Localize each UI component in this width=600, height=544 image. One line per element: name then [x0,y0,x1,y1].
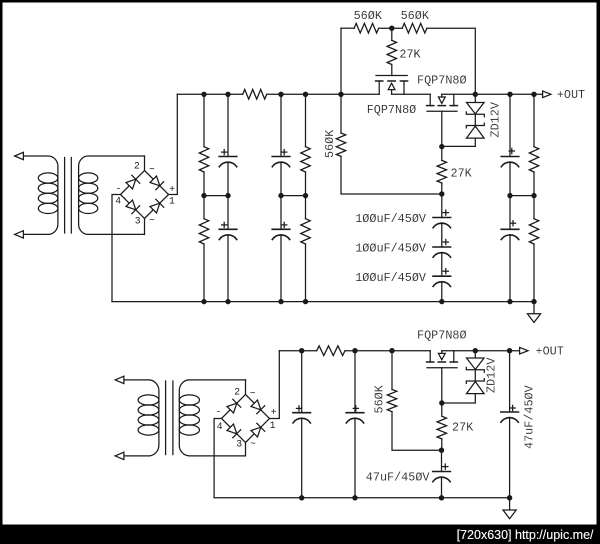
wire upper bridge plus to main rail [169,94,178,194]
resistor R1 560K [354,23,379,33]
lower bridge diode 4-2 (top-left) [222,395,246,419]
capacitor C9 100uF/450V [433,276,451,301]
svg-text:56ØK: 56ØK [354,9,383,23]
resistor R3 27K gate [387,28,396,75]
capacitor C1 row1 [219,94,237,195]
svg-text:FQP7N8Ø: FQP7N8Ø [367,103,417,117]
svg-text:1ØØuF/45ØV: 1ØØuF/45ØV [355,242,427,256]
node rail2-C13 [507,348,512,353]
node Q2 gate [439,144,444,149]
node mid-C3 [278,193,283,198]
label C9 100uF/450V [355,271,427,285]
resistor R14 560K [387,351,441,451]
arrow +OUT lower [520,347,528,354]
capacitor C5 row1 [501,94,519,195]
label +OUT lower [536,344,564,358]
resistor R5 27K [437,146,446,194]
upper bridge ac mark bottom [149,215,155,226]
label R1 560K [354,9,383,23]
plus mark C13 [510,405,515,410]
wire upper bridge pin3 to secondary [144,219,146,235]
plus mark C4 [282,222,287,227]
transistor Q2 FQP7N80 [427,94,458,111]
svg-text:47uF/45ØV: 47uF/45ØV [523,384,537,449]
svg-text:2: 2 [134,161,140,172]
node top rail junction [389,26,394,31]
upper transformer primary bottom lead arrow [15,231,24,238]
plus mark C3 [282,150,287,155]
node gnd2-C12 [439,495,444,500]
label C13 47uF/450V [523,384,537,449]
upper transformer secondary winding [79,156,145,234]
node rail2-C11 [352,348,357,353]
svg-text:27K: 27K [399,48,421,62]
upper bridge pin label 4 [115,196,121,207]
svg-text:3: 3 [135,216,141,227]
svg-text:ZD12V: ZD12V [488,101,502,137]
label C8 100uF/450V [355,242,427,256]
svg-text:FQP7N8Ø: FQP7N8Ø [417,74,467,88]
capacitor C3 row1 [272,94,290,195]
node gnd2-C10 [299,495,304,500]
capacitor C12 47uF/450V [433,450,451,498]
label R5 27K [451,167,473,181]
capacitor C13 47uF/450V output [501,351,519,498]
middle rail output pair [510,195,534,197]
svg-text:56ØK: 56ØK [323,129,337,158]
capacitor C8 100uF/450V [433,247,451,276]
zener diodes ZD12V pair lower [442,351,485,403]
wire upper bridge minus to ground rail [112,195,121,302]
wire Q3 gate down [441,368,443,403]
label +OUT upper [557,88,585,102]
label ZD12V upper [488,101,502,137]
resistor R9 bleeder row1 [301,94,310,195]
node mid-R7 [201,193,206,198]
svg-text:1: 1 [270,420,276,431]
wire lower bridge pin3 to secondary [245,443,247,456]
arrow +OUT upper [543,91,551,98]
svg-text:~: ~ [250,438,256,449]
wire rail Q1 source segment [392,93,431,95]
upper bridge pin label 2 [134,161,140,172]
upper bridge diode 4-3 (bottom-left) [121,195,145,219]
node rail-R4 [338,92,343,97]
capacitor C11 row [346,351,364,498]
node rail2-R14 [389,348,394,353]
upper transformer primary winding [23,156,58,234]
ground symbol upper [527,302,540,323]
svg-text:~: ~ [149,164,155,175]
node rail2 zener [473,348,478,353]
transistor Q1 FQP7N80 [376,76,408,95]
capacitor C6 row2 [501,196,519,302]
node rail2-C10 [299,348,304,353]
plus mark C12 [443,464,448,469]
wire top rail right drop [427,28,475,94]
label Q2 FQP7N80 [367,103,417,117]
upper bridge ac mark top [149,164,155,175]
node gnd-C4 [278,299,283,304]
node gnd-R8 [201,299,206,304]
lower transformer secondary winding [179,380,245,456]
resistor R4 560K tall [336,94,442,194]
svg-text:47uF/45ØV: 47uF/45ØV [366,470,431,484]
upper transformer primary top lead arrow [15,152,24,159]
plus mark C7 [443,210,448,215]
node cap stack top [439,191,444,196]
resistor series on upper rail [243,90,267,100]
upper bridge pin label 3 [135,216,141,227]
plus mark C6 [510,221,515,226]
capacitor C4 row2 [272,196,290,302]
label C12 47uF/450V [366,470,431,484]
upper transformer core [65,158,72,234]
lower transformer core [166,381,173,455]
lower bridge diode 2-1 (top-right) [246,395,270,419]
resistor series on lower rail [317,346,345,356]
svg-text:1: 1 [169,196,175,207]
label ZD12V lower [485,357,499,393]
resistor R12 row2 [529,196,538,302]
resistor R11 row1 [529,94,538,195]
capacitor C2 row2 [219,196,237,302]
svg-text:ZD12V: ZD12V [485,357,499,393]
wire rail Q2 source to out [442,93,543,95]
svg-text:+OUT: +OUT [536,344,564,358]
node mid-R11 [531,193,536,198]
lower bridge ac mark bottom [250,438,256,449]
plus mark C9 [443,269,448,274]
wire upper main rail left segment [177,93,242,95]
label Q3 FQP7N80 [417,328,467,342]
lower transformer primary bottom lead arrow [115,452,124,459]
node mid-C1 [225,193,230,198]
node rail-R7 [201,92,206,97]
upper bridge diode 4-2 (top-left) [121,171,145,195]
upper bridge diode 3-1 (bottom-right) [145,195,169,219]
wire top rail R1-R2 [379,27,403,29]
plus mark C2 [222,222,227,227]
lower bridge pin label 2 [234,386,240,397]
lower bridge diode 3-1 (bottom-right) [246,419,270,443]
label R14 560K [373,384,387,413]
svg-text:+: + [271,407,277,418]
label Q1 FQP7N80 [417,74,467,88]
svg-text:+OUT: +OUT [557,88,585,102]
node rail zener [473,92,478,97]
svg-text:~: ~ [149,215,155,226]
plus mark C10 [296,406,301,411]
svg-text:1ØØuF/45ØV: 1ØØuF/45ØV [355,212,427,226]
wire upper main rail to mosfet Q1 [267,93,380,95]
node Q3 gate [439,400,444,405]
resistor R15 27K [437,403,446,450]
svg-text:2: 2 [234,386,240,397]
node rail-R9 [303,92,308,97]
resistor R8 bleeder row2 [199,196,208,302]
node gnd-R10 [303,299,308,304]
wire lower secondary to bridge pin2 [245,380,247,395]
node gnd-C6 [507,299,512,304]
node gnd-C9 [439,299,444,304]
node R14-R15 junction [439,448,444,453]
svg-text:27K: 27K [452,420,474,434]
svg-text:4: 4 [217,421,223,432]
svg-text:~: ~ [250,388,256,399]
resistor R7 bleeder row1 [199,94,208,195]
wire upper ground rail [112,301,534,303]
node mid-C5 [507,193,512,198]
zener diodes ZD12V pair upper [442,94,485,146]
svg-text:4: 4 [115,196,121,207]
label C7 100uF/450V [355,212,427,226]
wire lower bridge minus to ground rail [214,419,221,498]
svg-text:-: - [116,183,122,194]
svg-text:56ØK: 56ØK [373,384,387,413]
resistor R2 560K [402,23,427,33]
label R15 27K [452,420,474,434]
wire lower ground rail [214,497,510,499]
lower bridge diode 4-3 (bottom-left) [222,419,246,443]
middle rail column group1 [204,195,228,197]
lower bridge ac mark top [250,388,256,399]
plus mark C5 [509,148,514,153]
plus mark C11 [353,406,358,411]
svg-text:[720x630] http://upic.me/: [720x630] http://upic.me/ [457,528,594,542]
wire lower main rail to Q3 [345,350,430,352]
node rail C5 [507,92,512,97]
lower bridge pin label 1 [270,420,276,431]
lower bridge pin label 3 [236,439,242,450]
node gnd2-C11 [352,495,357,500]
wire lower rail Q3 source to out [442,350,520,352]
node gnd-R12 [531,299,536,304]
upper bridge plus mark [169,184,175,195]
svg-text:27K: 27K [451,167,473,181]
middle rail column group2 [281,195,306,197]
node rail R11 [531,92,536,97]
wire lower main rail left [279,350,316,352]
plus mark C8 [443,239,448,244]
upper bridge minus mark [116,183,122,194]
lower transformer primary top lead arrow [115,376,124,383]
upper bridge diode 2-1 (top-right) [145,171,169,195]
capacitor C7 100uF/450V [433,194,451,247]
wire top rail left drop [341,28,354,94]
svg-text:+: + [169,184,175,195]
transistor Q3 FQP7N80 [427,351,458,368]
lower bridge pin label 4 [217,421,223,432]
upper bridge pin label 1 [169,196,175,207]
lower bridge plus mark [271,407,277,418]
svg-text:FQP7N8Ø: FQP7N8Ø [417,328,467,342]
lower bridge minus mark [216,407,222,418]
svg-text:56ØK: 56ØK [401,9,430,23]
node gnd-C2 [225,299,230,304]
label R4 560K [323,129,337,158]
svg-text:3: 3 [236,439,242,450]
plus mark C1 [222,150,227,155]
wire lower bridge plus to main rail [270,351,280,419]
node gnd2-C13 [507,495,512,500]
lower transformer primary winding [124,380,159,456]
label R2 560K [401,9,430,23]
svg-text:-: - [216,407,222,418]
node rail-C1 [225,92,230,97]
node rail-C3 [278,92,283,97]
capacitor C10 row [293,351,311,498]
wire Q2 gate down [441,111,443,146]
svg-text:1ØØuF/45ØV: 1ØØuF/45ØV [355,271,427,285]
label R3 27K [399,48,421,62]
ground symbol lower [503,498,516,519]
wire upper secondary to bridge pin2 [144,156,146,171]
node mid-R9 [303,193,308,198]
resistor R10 bleeder row2 [301,196,310,302]
